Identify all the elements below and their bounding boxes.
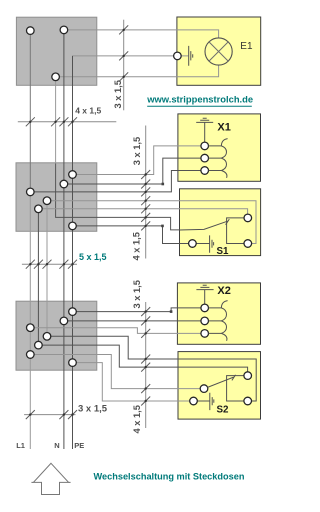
wire J to S2 wire1 around to BR terminal [47,336,256,401]
lamp E1 cross [209,42,228,61]
svg-text:3 x 1,5: 3 x 1,5 [78,404,108,415]
S2 terminal BL [190,397,198,405]
bottom box terminal K [35,341,43,349]
wire I to X2 c3 [30,328,204,334]
cable slashes S1 [141,196,150,230]
svg-text:3 x 1,5: 3 x 1,5 [132,137,142,165]
wire L column upper (top box c1 down to C) [29,31,31,192]
S2 lever [208,377,234,387]
X2 terminal 3 [201,330,209,338]
svg-text:PE: PE [74,441,84,450]
S1 terminal BR [244,240,252,248]
wire L to S2 lever terminal ML [30,355,204,389]
svg-text:S2: S2 [217,405,230,416]
junction dot F corner [161,225,164,228]
S2 earth mark [210,393,214,410]
socket box X2 outline [177,283,260,344]
wire M to S2 BL terminal [73,363,194,401]
svg-text:X1: X1 [217,122,230,134]
wire C to X1 c3 [30,171,204,192]
wire D to S1 wire1 around to BR terminal [47,201,256,244]
bottom box terminal I [27,324,35,332]
X2 terminal 2 [201,317,209,325]
dimension line cable to lamp [123,20,125,111]
top box terminal c1 [27,27,35,35]
wire S1 TR to bottom tee [227,218,248,244]
svg-text:5 x 1,5: 5 x 1,5 [79,252,107,262]
bottom box terminal G [69,308,77,316]
wire PE column (lamp corner through A F G M to PE end) [72,56,74,449]
cable slashes S2 [141,355,150,406]
wire S2 TR to bottom tee [227,376,248,401]
S1 terminal BL [189,240,197,248]
switch box S1 outline [180,189,261,256]
svg-text:X2: X2 [217,285,230,297]
cable slashes lamp [119,25,128,81]
S1 lever [180,221,228,230]
S1 terminal TR [244,214,252,222]
dimension line cable 5x1.5 [22,263,77,265]
svg-text:4 x 1,5: 4 x 1,5 [75,106,101,116]
svg-text:4 x 1,5: 4 x 1,5 [132,405,142,433]
top box terminal c2 [60,26,68,34]
svg-text:L1: L1 [16,441,25,450]
middle box terminal F [69,222,77,230]
X2 terminal 1 [201,304,209,312]
svg-text:S1: S1 [217,246,230,257]
wire N column (top box c2 through B H to N end) [63,30,65,449]
middle box terminal B [60,180,68,188]
dimension line cable 4x1.5 top [18,121,117,123]
X1 socket contact stubs [209,146,222,171]
X2 earth symbol [196,285,213,308]
X2 socket contact wave [221,301,227,341]
X1 terminal 3 [201,167,209,175]
switch box S2 outline [178,352,261,420]
wire H to X2 c2 [64,320,205,322]
svg-text:3 x 1,5: 3 x 1,5 [132,280,142,308]
junction box J1 (top distribution box) [16,17,96,85]
X1 socket contact wave [221,139,227,178]
wire B to X1 c2 [64,158,205,184]
cable slashes X1 [141,170,150,196]
wire switched return lower (corner to S1 lever entry) [56,164,180,230]
cable slashes 4x1.5 top [26,117,77,126]
bottom box terminal J [43,333,51,341]
wire S1 BL to earth mark [192,243,209,245]
cable slashes X2 [141,307,150,338]
S2 terminal TR [244,372,252,380]
arrow up symbol [33,463,68,494]
wire L column lower (C through I L to L1 end) [29,192,31,449]
wire lamp switched line (top box c2 to lamp E1 top) [64,30,219,38]
wire A to X1 c1 [73,146,205,175]
wire E to S1 wire2 down to TR terminal [38,209,247,218]
cable slashes 5x1.5 [26,260,77,269]
X1 terminal 1 [201,142,209,150]
wire F to S1 BL terminal [73,226,193,244]
bottom box terminal L [27,351,35,359]
X2 socket contact stubs [209,308,222,334]
lamp terminal circle [174,52,182,60]
cable slashes supply [26,410,77,419]
svg-text:www.strippenstrolch.de: www.strippenstrolch.de [146,93,253,104]
wire K to S2 wire2 down to TR terminal [38,345,247,376]
S2 lever tick [232,375,236,381]
top box terminal c3 [52,73,60,81]
dimension line supply cable [24,414,75,416]
wire lamp N (top box c3 to lamp E1 bottom) [56,65,219,77]
S2 terminal BR [244,397,252,405]
dimension line cables X2 S2 [145,302,147,428]
middle box terminal E [35,205,43,213]
wire G to X2 c1 [73,308,205,312]
junction dot G corner [170,310,173,313]
lamp earth symbol [189,46,193,66]
X1 earth symbol [196,118,213,146]
wire switched return upper (top box c3 down to middle box) [55,77,57,164]
junction box J2 (middle distribution box) [16,163,97,232]
junction dot B corner [162,183,165,186]
S1 earth mark [210,235,214,252]
wire S2 BL to earth mark [194,400,210,402]
middle box terminal D [43,197,51,205]
slash junction dots [29,121,31,123]
middle box terminal A [69,171,77,179]
S2 terminal ML [200,385,208,393]
socket box X1 outline [178,114,261,181]
svg-text:N: N [54,441,59,450]
arrow wing serifs [31,481,70,483]
junction box J3 (bottom distribution box) [16,301,97,370]
X1 terminal 2 [201,154,209,162]
bottom box terminal M [69,359,77,367]
svg-text:4 x 1,5: 4 x 1,5 [132,232,142,260]
svg-text:3 x 1,5: 3 x 1,5 [113,80,123,108]
lamp E1 circle symbol [205,38,232,65]
website underline [147,105,252,107]
svg-text:E1: E1 [240,41,253,52]
middle box terminal C [27,188,35,196]
svg-text:Wechselschaltung mit Steckdose: Wechselschaltung mit Steckdosen [94,472,245,482]
lamp box E1 outline [177,17,261,85]
wire lamp PE branch (corner to lamp terminal) [73,55,189,57]
dimension line cables X1 S1 [145,126,147,259]
wire column E to K [37,209,39,345]
bottom box terminal H [60,317,68,325]
wire column D to J [46,201,48,337]
S1 lever tick [226,219,230,225]
